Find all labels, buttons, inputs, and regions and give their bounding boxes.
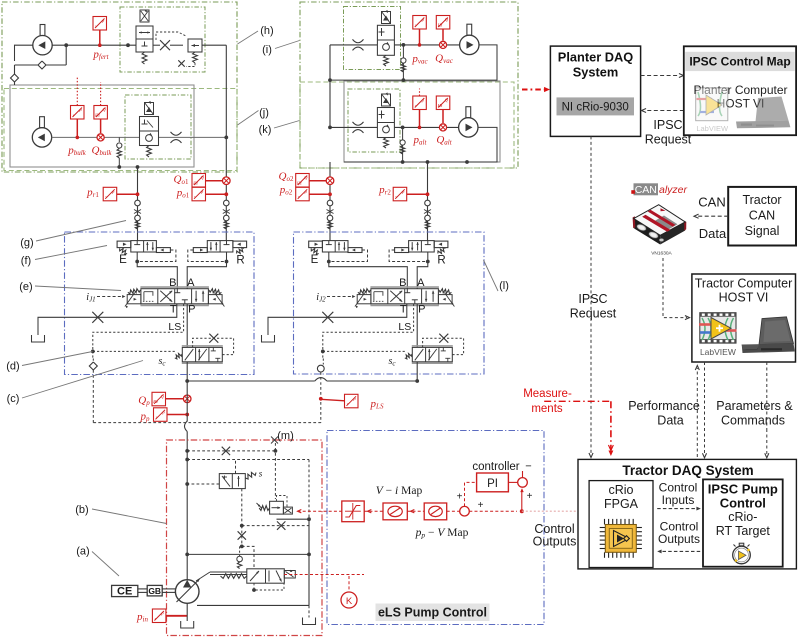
coupling check stack po2 bbox=[327, 200, 333, 206]
valve pump control bbox=[221, 569, 296, 583]
icon laptop bbox=[742, 317, 795, 353]
gray return frame bulk circuit bbox=[10, 85, 194, 167]
sensor p_r2 bbox=[393, 187, 407, 201]
valve R1 bbox=[188, 241, 247, 264]
wire fert supply bbox=[52, 44, 136, 46]
svg-text:R: R bbox=[437, 255, 445, 267]
svg-text:Hz: Hz bbox=[437, 22, 443, 27]
dashed line Planter DAQ down bbox=[590, 136, 592, 455]
svg-text:(g): (g) bbox=[20, 237, 33, 249]
blue box eLS control border bbox=[327, 431, 544, 625]
feedback arrow into sum2 bbox=[521, 490, 523, 512]
wire map2 input bbox=[447, 510, 460, 512]
red box (m) border bbox=[167, 440, 323, 636]
green box vac circuit border bbox=[300, 2, 518, 168]
svg-text:−: − bbox=[525, 461, 531, 473]
svg-text:Outputs: Outputs bbox=[658, 532, 700, 546]
svg-text:v: v bbox=[194, 194, 196, 199]
svg-text:v: v bbox=[156, 415, 158, 420]
pump M_bulk bbox=[40, 117, 45, 128]
sensor p_in bbox=[152, 609, 166, 623]
LS junction bbox=[321, 350, 325, 354]
valve unloader solenoid bbox=[219, 469, 262, 489]
valve E1 (f) bbox=[117, 241, 176, 264]
gray return frame alt circuit bbox=[344, 81, 500, 162]
throttle alt bbox=[353, 122, 364, 125]
svg-text:(c): (c) bbox=[7, 393, 20, 405]
valve fert control bbox=[136, 26, 153, 52]
svg-text:System: System bbox=[573, 65, 619, 80]
blue box left manifold border bbox=[65, 232, 255, 375]
svg-text:Commands: Commands bbox=[721, 414, 785, 428]
svg-text:+: + bbox=[478, 500, 484, 511]
wire fert return left bbox=[15, 45, 33, 61]
svg-text:LS: LS bbox=[168, 321, 181, 333]
svg-text:Measure-: Measure- bbox=[523, 388, 572, 400]
valve alt control bbox=[377, 108, 394, 138]
check valve fert bypass bbox=[38, 61, 46, 69]
svg-text:K: K bbox=[346, 596, 353, 607]
svg-text:T: T bbox=[400, 304, 407, 316]
box Tractor DAQ System bbox=[578, 459, 796, 569]
icon LabVIEW logo bbox=[699, 313, 737, 357]
wire sum1 to PI bbox=[465, 482, 477, 506]
wire pump inlet bbox=[186, 603, 188, 621]
sensor p_bulk bbox=[71, 106, 85, 120]
pilot dashed fert bbox=[156, 32, 186, 40]
wire P port main bbox=[416, 304, 418, 348]
svg-text:Hz: Hz bbox=[296, 180, 302, 185]
icon LabVIEW logo faded bbox=[696, 88, 729, 133]
icon FPGA chip bbox=[600, 519, 642, 558]
arrow Planter DAQ to IPSC Control Map bbox=[641, 75, 679, 77]
throttle vac bbox=[353, 39, 364, 42]
check valve vac bypass bbox=[402, 56, 404, 80]
wire alt supply bbox=[330, 126, 460, 128]
arrow control inputs bbox=[657, 508, 697, 510]
svg-text:LabVIEW: LabVIEW bbox=[696, 124, 729, 133]
motor M_alt bbox=[466, 107, 471, 118]
valve proportional i_j2 bbox=[316, 277, 454, 316]
svg-text:P: P bbox=[188, 304, 195, 316]
svg-text:(h): (h) bbox=[260, 25, 273, 37]
arrow Tractor CAN to CANalyzer bbox=[697, 215, 728, 217]
shaft CE-GB bbox=[138, 588, 147, 590]
svg-text:Performance: Performance bbox=[628, 399, 700, 413]
svg-text:Control: Control bbox=[720, 496, 766, 511]
sensor Q_bulk bbox=[94, 106, 108, 120]
wire vac drop bbox=[402, 45, 404, 56]
sensor p_vac bbox=[413, 16, 427, 30]
blue box right manifold (l) border bbox=[294, 232, 485, 374]
dashed vertical right-pilot bbox=[274, 443, 276, 499]
svg-text:Request: Request bbox=[570, 307, 617, 321]
svg-text:v: v bbox=[415, 22, 417, 27]
svg-text:alyzer: alyzer bbox=[659, 184, 688, 196]
LS dotted line bbox=[323, 304, 414, 347]
arrow control outputs bbox=[661, 550, 701, 552]
svg-text:IPSC Pump: IPSC Pump bbox=[708, 482, 778, 497]
svg-text:B: B bbox=[399, 277, 406, 289]
wire supply line pr1 bbox=[137, 167, 139, 241]
box Tractor Computer HOST VI bbox=[692, 274, 796, 362]
red dash-dot measurement path bbox=[544, 400, 611, 402]
map block V-i bbox=[383, 503, 407, 520]
controller PI block bbox=[477, 473, 509, 492]
dashed CANalyzer to Tractor Computer bbox=[663, 258, 687, 318]
dashed pilot top bbox=[187, 450, 275, 452]
LS to s_c spring dashed bbox=[323, 350, 407, 352]
svg-text:CAN: CAN bbox=[698, 195, 725, 210]
svg-text:ments: ments bbox=[531, 403, 563, 415]
svg-text:Hz: Hz bbox=[192, 180, 198, 185]
svg-text:(m): (m) bbox=[277, 430, 294, 442]
tank pump inlet bbox=[181, 621, 194, 628]
svg-text:IPSC: IPSC bbox=[578, 292, 607, 306]
sensor p_fert bbox=[93, 17, 107, 31]
wire main crossbar bbox=[187, 380, 417, 382]
sensor p_o1 bbox=[192, 187, 206, 201]
check valve pilot feed bbox=[239, 546, 241, 553]
LS dotted line bbox=[93, 304, 184, 347]
wire R to A port bbox=[417, 252, 428, 289]
x mark on border bbox=[271, 437, 278, 444]
red dashed measurement arrow to Planter DAQ bbox=[522, 89, 546, 91]
coupling check stack pr1 bbox=[135, 200, 141, 206]
svg-text:eLS Pump Control: eLS Pump Control bbox=[378, 606, 487, 620]
svg-text:R: R bbox=[236, 255, 244, 267]
check LS left (d) bbox=[92, 359, 94, 363]
wire hop over LS bbox=[315, 380, 327, 383]
wire main below s_c right bbox=[416, 362, 418, 381]
check LS right bbox=[322, 359, 324, 365]
arrow map2 to map1 bbox=[407, 510, 424, 512]
svg-text:(l): (l) bbox=[499, 280, 509, 292]
svg-text:E: E bbox=[311, 254, 319, 266]
dashed lower rect bbox=[242, 525, 309, 527]
svg-text:(i): (i) bbox=[262, 44, 272, 56]
svg-text:RT Target: RT Target bbox=[716, 524, 771, 538]
sensor p_o2 bbox=[296, 187, 310, 201]
box IPSC Control Map bbox=[684, 46, 796, 135]
svg-text:v: v bbox=[105, 194, 107, 199]
svg-text:Tractor: Tractor bbox=[742, 193, 781, 207]
check valve fert return bbox=[14, 65, 16, 74]
svg-text:(f): (f) bbox=[21, 255, 31, 267]
icon laptop faded bbox=[736, 97, 790, 129]
valve R2 bbox=[389, 241, 448, 264]
wire fert output vertical bbox=[225, 45, 227, 137]
svg-text:E: E bbox=[119, 254, 127, 266]
svg-text:VN1630A: VN1630A bbox=[651, 251, 672, 257]
svg-text:v: v bbox=[73, 112, 75, 117]
wire bulk bottom return bbox=[137, 167, 139, 172]
LS to s_c spring dashed bbox=[93, 350, 177, 352]
wire P port main bbox=[186, 304, 188, 348]
svg-text:LS: LS bbox=[398, 321, 411, 333]
valve vac control bbox=[377, 25, 394, 55]
wire crossbar mid bbox=[187, 553, 309, 555]
svg-text:T: T bbox=[170, 304, 177, 316]
wire control valve link to pump bbox=[210, 571, 247, 573]
svg-text:GB: GB bbox=[148, 586, 161, 596]
green box (j) bulk circuit border bbox=[4, 89, 237, 171]
tank T bbox=[262, 335, 275, 342]
wire vac supply bbox=[330, 44, 461, 46]
svg-text:Hz: Hz bbox=[94, 112, 100, 117]
coupling check stack po1 bbox=[224, 200, 230, 206]
svg-text:CAN: CAN bbox=[749, 209, 775, 223]
valve bulk control bbox=[140, 117, 159, 146]
green box alt valve inner border bbox=[348, 89, 400, 152]
svg-text:Outputs: Outputs bbox=[533, 535, 577, 549]
wire T to tank bbox=[268, 304, 407, 335]
valve proportional i_j1 (e) bbox=[86, 277, 224, 316]
pink dotted to tractor DAQ bbox=[522, 510, 578, 512]
label CANalyzer bbox=[634, 183, 659, 195]
svg-text:+: + bbox=[457, 492, 463, 503]
valve s_c compensator bbox=[388, 334, 463, 368]
svg-text:(a): (a) bbox=[76, 546, 89, 558]
svg-text:FPGA: FPGA bbox=[604, 497, 639, 511]
svg-text:NI cRio-9030: NI cRio-9030 bbox=[562, 102, 629, 114]
svg-text:A: A bbox=[187, 277, 195, 289]
engine CE box bbox=[112, 585, 138, 596]
wire E to B port bbox=[329, 252, 408, 289]
icon CAN device bbox=[633, 205, 687, 245]
wire supply line pr2 bbox=[427, 162, 429, 241]
svg-text:A: A bbox=[417, 277, 425, 289]
sensor Q_p bbox=[152, 392, 166, 406]
svg-text:v: v bbox=[155, 616, 157, 621]
wire supply line po1 bbox=[225, 137, 227, 240]
svg-text:LabVIEW: LabVIEW bbox=[700, 347, 736, 357]
wire compensator output bbox=[277, 518, 310, 520]
dashed drop with throttle bbox=[241, 526, 243, 547]
valve pressure compensator bbox=[257, 496, 293, 515]
wire fert to output corner bbox=[202, 44, 226, 46]
svg-text:V − i Map: V − i Map bbox=[376, 485, 423, 497]
svg-text:Parameters &: Parameters & bbox=[716, 399, 793, 413]
box Tractor CAN Signal bbox=[728, 187, 796, 246]
svg-text:P: P bbox=[418, 304, 425, 316]
wire LS dashed bottom bbox=[320, 402, 322, 423]
svg-text:(b): (b) bbox=[75, 504, 88, 516]
check valve alt bypass bbox=[402, 138, 404, 162]
svg-text:controller: controller bbox=[472, 461, 519, 473]
dashed parameters line bbox=[766, 362, 768, 429]
svg-text:(e): (e) bbox=[19, 281, 32, 293]
svg-text:Hz: Hz bbox=[152, 399, 158, 404]
valve E2 bbox=[309, 241, 368, 264]
icon stopwatch bbox=[733, 543, 751, 564]
svg-text:v: v bbox=[415, 103, 417, 108]
box NI cRio-9030 bbox=[557, 97, 635, 115]
wire bulk supply bbox=[52, 136, 227, 138]
sensor Q_o2 bbox=[296, 174, 310, 188]
wire alt return bbox=[344, 127, 497, 162]
dashed performance lines bbox=[696, 368, 698, 457]
svg-text:cRio-: cRio- bbox=[728, 510, 757, 524]
svg-text:CAN: CAN bbox=[635, 184, 657, 196]
svg-text:Signal: Signal bbox=[745, 224, 780, 238]
svg-text:Data: Data bbox=[657, 414, 683, 428]
svg-text:HOST VI: HOST VI bbox=[719, 291, 769, 305]
gearbox GB box bbox=[147, 585, 162, 596]
wire T to tank bbox=[38, 304, 177, 335]
wire main into pump box bbox=[186, 381, 188, 399]
sensor p_alt bbox=[413, 96, 427, 110]
motor M_vac bbox=[467, 24, 472, 35]
shaft GB-pump bbox=[162, 588, 175, 590]
gain K circle bbox=[341, 592, 357, 608]
wire supply line po2 bbox=[329, 162, 331, 241]
throttle T line bbox=[322, 312, 333, 323]
wire vac return bbox=[330, 45, 497, 80]
throttle bulk line bbox=[171, 132, 182, 135]
sensor Q_alt bbox=[436, 96, 450, 110]
svg-text:v: v bbox=[298, 194, 300, 199]
wire R to A port bbox=[187, 252, 226, 289]
tank drain right bbox=[308, 605, 310, 617]
svg-text:Tractor Computer: Tractor Computer bbox=[695, 277, 792, 291]
wire main below s_c left bbox=[186, 362, 188, 381]
svg-text:(j): (j) bbox=[259, 107, 269, 119]
svg-text:IPSC Control Map: IPSC Control Map bbox=[689, 55, 790, 69]
LS junction bbox=[91, 350, 95, 354]
svg-text:s: s bbox=[259, 469, 263, 479]
relief valve fert bbox=[188, 39, 202, 52]
sensor p_LS bbox=[319, 397, 323, 401]
svg-text:CE: CE bbox=[117, 586, 132, 598]
sensor p_r1 bbox=[103, 187, 117, 201]
red dashed K link bbox=[284, 574, 364, 576]
wire feedback from control outputs bbox=[465, 510, 522, 512]
box IPSC Pump Control bbox=[703, 479, 783, 566]
svg-text:(k): (k) bbox=[259, 124, 272, 136]
wire E to B port bbox=[137, 252, 177, 289]
green box vac valve inner border bbox=[344, 7, 401, 70]
throttle fert line bbox=[160, 40, 170, 50]
summing junction 2 bbox=[518, 478, 528, 488]
green box (i) fert valve inner border bbox=[120, 7, 205, 72]
svg-text:v: v bbox=[395, 194, 397, 199]
wire PI to sum2 bbox=[508, 481, 517, 483]
arrow IPSC Control Map to Planter DAQ bbox=[645, 110, 684, 112]
svg-text:v: v bbox=[95, 23, 97, 28]
sensor Q_vac bbox=[436, 16, 450, 30]
dashed feedback under valve bbox=[254, 583, 284, 590]
svg-text:Inputs: Inputs bbox=[662, 493, 695, 507]
saturation block bbox=[342, 501, 364, 522]
svg-text:v: v bbox=[347, 401, 349, 406]
svg-text:+: + bbox=[527, 491, 533, 502]
svg-text:Planter DAQ: Planter DAQ bbox=[558, 50, 633, 65]
throttle T line bbox=[92, 312, 103, 323]
svg-text:B: B bbox=[169, 277, 176, 289]
dashed upper rect bbox=[187, 459, 309, 461]
wire right return vertical bbox=[308, 519, 310, 605]
svg-text:Hz: Hz bbox=[437, 103, 443, 108]
svg-text:PI: PI bbox=[487, 478, 498, 490]
pump main variable bbox=[175, 580, 199, 604]
valve s_c compensator bbox=[158, 334, 233, 368]
dashed valve connections bbox=[235, 460, 237, 474]
svg-text:Data: Data bbox=[699, 226, 727, 241]
summing junction 1 bbox=[460, 506, 470, 516]
box cRio FPGA bbox=[589, 481, 653, 568]
box Planter DAQ System bbox=[550, 46, 640, 136]
coupling check stack pr2 bbox=[425, 200, 431, 206]
sensor p_p bbox=[154, 408, 168, 422]
green box alt circuit border bbox=[300, 82, 514, 168]
svg-text:(d): (d) bbox=[6, 361, 19, 373]
red dashed control path bbox=[298, 510, 342, 512]
green box (k) bulk valve inner border bbox=[125, 95, 191, 159]
svg-text:cRio: cRio bbox=[608, 483, 633, 497]
label eLS Pump Control bbox=[376, 604, 490, 622]
green box (h) fert circuit border bbox=[2, 2, 237, 172]
tank T bbox=[32, 335, 45, 342]
check valve bulk branch bbox=[118, 137, 120, 142]
arrow map1 to saturation bbox=[364, 510, 383, 512]
map block pp-V bbox=[424, 503, 447, 520]
pump M_fert bbox=[40, 25, 45, 36]
svg-text:IPSC: IPSC bbox=[653, 118, 682, 132]
sensor Q_o1 bbox=[192, 174, 206, 188]
wire vac left vertical bbox=[329, 45, 331, 128]
svg-text:Tractor DAQ System: Tractor DAQ System bbox=[622, 463, 753, 478]
wire pump bottom return bbox=[197, 601, 310, 606]
